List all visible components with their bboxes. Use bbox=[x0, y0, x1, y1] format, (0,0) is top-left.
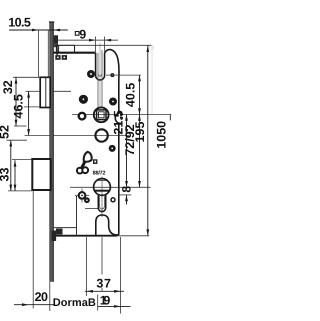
left ext line y192.7 bbox=[8, 190, 32, 192]
latch slot inner arc bbox=[98, 74, 102, 76]
small circle G bbox=[111, 198, 115, 202]
screw circle D bbox=[79, 113, 86, 120]
dim 72/92 line bbox=[139, 115, 141, 188]
dim 21.5 line bbox=[126, 115, 128, 188]
circle7 centerline y135.4 bbox=[25, 134, 130, 136]
bottom ext line x120.5 bbox=[120, 237, 122, 314]
box divider bbox=[58, 45, 60, 52]
dim 19 arrow bbox=[114, 305, 120, 308]
deadbolt box bbox=[32, 159, 50, 190]
crosshair centerline y195.4 bbox=[75, 194, 89, 196]
dim 10.5 line bbox=[9, 29, 68, 31]
extension line x40 bbox=[37, 30, 39, 77]
dim 40.5 line bbox=[139, 75, 141, 114]
top protrusion box bbox=[56, 45, 74, 52]
latch box bbox=[40, 77, 50, 107]
left ext line y140.2 bbox=[7, 139, 28, 141]
cylinder stem inner bbox=[100, 195, 105, 209]
screw circle A bbox=[87, 70, 95, 78]
svg-text:52: 52 bbox=[0, 125, 12, 139]
internal line y208.6 bbox=[85, 208, 98, 210]
internal vertical plate line bbox=[76, 196, 78, 236]
dim 9 arrows bbox=[89, 39, 96, 42]
screw circle E bbox=[109, 98, 117, 106]
case right edge bbox=[118, 83, 120, 233]
lever foot ring left bbox=[77, 168, 83, 174]
svg-text:8: 8 bbox=[120, 186, 134, 193]
dim 20 arrow bbox=[22, 303, 29, 306]
follower square bbox=[97, 110, 106, 120]
svg-text:33: 33 bbox=[0, 168, 11, 182]
dim square9 symbol bbox=[75, 32, 79, 36]
dim 20 line bbox=[14, 304, 54, 306]
case top edge bbox=[54, 52, 96, 54]
dim 19 line bbox=[98, 305, 131, 307]
svg-text:9: 9 bbox=[79, 28, 86, 42]
svg-text:19: 19 bbox=[100, 294, 111, 308]
bottom ext line x33.2 bbox=[32, 191, 34, 309]
screw circle F bbox=[109, 145, 116, 152]
left ext line y126 bbox=[14, 125, 27, 127]
left ext line y77.3 bbox=[13, 76, 40, 78]
case bottom edge bbox=[54, 233, 119, 235]
dim 52 line bbox=[10, 140, 12, 191]
dim 10.5 right arrow bbox=[54, 29, 60, 32]
svg-text:32: 32 bbox=[1, 80, 15, 94]
left ext line y91.3 bbox=[26, 90, 41, 92]
internal horizontal line bbox=[54, 227, 77, 229]
latch slot inner line right bbox=[101, 50, 103, 108]
dim 33 line bbox=[14, 160, 16, 191]
faint guide circle bbox=[150, 46, 154, 50]
svg-text:1050: 1050 bbox=[154, 121, 168, 149]
lever loop head bbox=[84, 152, 92, 162]
svg-text:88/72: 88/72 bbox=[93, 171, 106, 177]
cylinder bar bbox=[95, 190, 110, 192]
crosshair circle bbox=[79, 192, 86, 199]
fixing square 1 bbox=[55, 55, 60, 60]
dim 8 tail bbox=[126, 195, 128, 205]
lock vertical axis lower bbox=[101, 177, 103, 218]
svg-text:37: 37 bbox=[96, 277, 111, 291]
svg-text:40.5: 40.5 bbox=[124, 83, 138, 107]
dark circle pair bbox=[84, 197, 90, 203]
crosshair vertical bbox=[81, 189, 83, 203]
small dark square near lever bbox=[93, 159, 97, 164]
dim 9 ext tick left bbox=[95, 37, 97, 53]
left ext line y106.9 bbox=[24, 106, 40, 108]
cylinder stem bbox=[98, 195, 105, 212]
dim 37 arrows bbox=[87, 290, 93, 293]
dim 46.5 line bbox=[28, 91, 30, 135]
svg-text:20: 20 bbox=[35, 290, 48, 304]
svg-text:46.5: 46.5 bbox=[12, 94, 26, 118]
bottom ext line x86.6 bbox=[86, 237, 88, 296]
follower centerline y114.5 bbox=[72, 114, 171, 116]
cylinder chord line y180 bbox=[96, 180, 108, 182]
dim 195 line bbox=[147, 46, 149, 236]
ext line y75.1 bbox=[106, 74, 141, 76]
latch box inner line bbox=[45, 78, 47, 107]
screw circle B bbox=[110, 73, 114, 77]
bottom ext line x97.7 bbox=[97, 295, 99, 311]
ext line y45.3 bbox=[75, 44, 152, 46]
euro cylinder circle bbox=[94, 179, 111, 196]
dim 8 lower arrow bbox=[125, 181, 128, 187]
follower inner square bbox=[99, 112, 105, 118]
cylinder centerline y187.3 bbox=[70, 186, 150, 188]
lock vertical axis upper bbox=[99, 43, 101, 108]
screw circle C bbox=[79, 95, 88, 104]
dim 10.5 left arrow bbox=[32, 29, 38, 32]
left ext line y159.5 bbox=[12, 159, 32, 161]
bottom screw blob bbox=[52, 231, 57, 242]
extension line x48.3 bbox=[47, 30, 49, 77]
bottom ext line x49.8 bbox=[49, 282, 51, 311]
right edge clip detail bbox=[115, 113, 121, 124]
svg-text:10.5: 10.5 bbox=[8, 16, 31, 30]
ext line y235.8 bbox=[119, 235, 149, 237]
latch head block bbox=[54, 35, 58, 44]
case hump top right bbox=[105, 50, 119, 83]
dim 37 line bbox=[85, 290, 124, 292]
dim 9 line bbox=[58, 39, 118, 41]
latch head nub bbox=[54, 44, 58, 47]
bottom ext line x102 bbox=[101, 237, 103, 291]
latch slot bbox=[96, 53, 105, 80]
dim 1050 stub bbox=[169, 115, 171, 121]
follower hub circle bbox=[94, 107, 109, 122]
dim 37 text bbox=[96, 275, 110, 288]
hole circle below follower bbox=[95, 129, 107, 141]
faceplate bbox=[50, 22, 54, 282]
ext line y194.9 bbox=[119, 194, 132, 196]
svg-text:21.5: 21.5 bbox=[111, 110, 125, 134]
fixing square 2 bbox=[62, 55, 67, 60]
faint guide line bbox=[151, 46, 153, 114]
latch slot inner line left bbox=[97, 53, 99, 108]
bottom notch bbox=[96, 215, 117, 235]
dim 32 line bbox=[15, 77, 17, 126]
lever foot ring right bbox=[82, 167, 88, 173]
lever neck bbox=[82, 162, 85, 168]
svg-text:DormaB: DormaB bbox=[53, 297, 96, 309]
dim 9 ext tick right bbox=[104, 37, 106, 54]
